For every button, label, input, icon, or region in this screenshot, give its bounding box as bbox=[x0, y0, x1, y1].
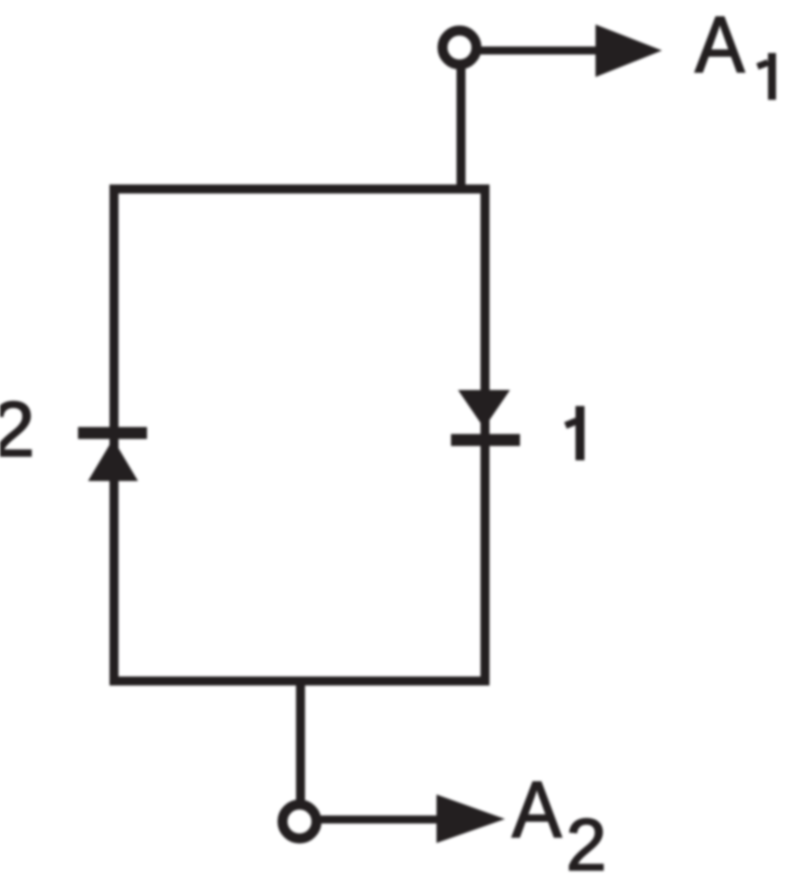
wire: loop top edge bbox=[110, 185, 490, 194]
arrowhead A1 bbox=[596, 25, 663, 78]
wire: horizontal lead to arrow A2 bbox=[316, 816, 442, 824]
wire: horizontal lead to arrow A1 bbox=[476, 47, 600, 55]
diode D1 cathode bar bbox=[451, 434, 520, 446]
wire: top lead from terminal A1 to loop bbox=[457, 60, 466, 189]
arrowhead A2 bbox=[437, 795, 506, 844]
diode D2 triangle (anode, pointing up) bbox=[88, 439, 138, 481]
label A1: subscript 1 (drawn path) bbox=[758, 53, 777, 100]
wire: bottom lead from loop to terminal A2 bbox=[296, 681, 305, 806]
wire: loop right edge (through diode 1) bbox=[481, 185, 490, 686]
label A1: letter A bbox=[695, 1, 745, 90]
svg-text:2: 2 bbox=[0, 385, 35, 473]
svg-text:A: A bbox=[512, 766, 562, 855]
label 1 (drawn path) bbox=[566, 406, 585, 460]
svg-text:2: 2 bbox=[566, 805, 607, 879]
label A2: letter A bbox=[512, 766, 562, 855]
terminal A2 (open circle) bbox=[283, 805, 317, 839]
wire: loop bottom edge bbox=[110, 677, 490, 686]
diode D1 triangle (anode, pointing down) bbox=[458, 390, 510, 428]
terminal A1 (open circle) bbox=[443, 31, 477, 65]
diode D2 cathode bar bbox=[78, 427, 147, 439]
svg-text:A: A bbox=[695, 1, 745, 90]
wire: loop left edge (through diode 2) bbox=[110, 185, 119, 686]
